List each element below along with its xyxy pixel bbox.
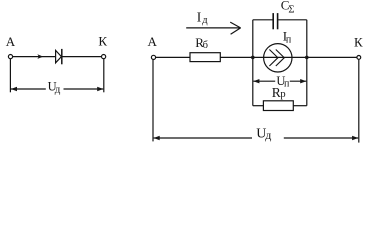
svg-text:К: К <box>98 34 107 49</box>
svg-text:д: д <box>202 15 208 26</box>
svg-text:I: I <box>197 10 202 25</box>
svg-text:К: К <box>354 35 363 50</box>
svg-text:р: р <box>280 89 285 100</box>
svg-text:б: б <box>203 40 208 51</box>
svg-text:A: A <box>148 34 158 49</box>
svg-text:д: д <box>265 128 271 142</box>
svg-text:д: д <box>55 84 61 96</box>
svg-text:Σ: Σ <box>288 4 294 15</box>
svg-text:A: A <box>6 34 16 49</box>
svg-text:п: п <box>286 35 292 46</box>
